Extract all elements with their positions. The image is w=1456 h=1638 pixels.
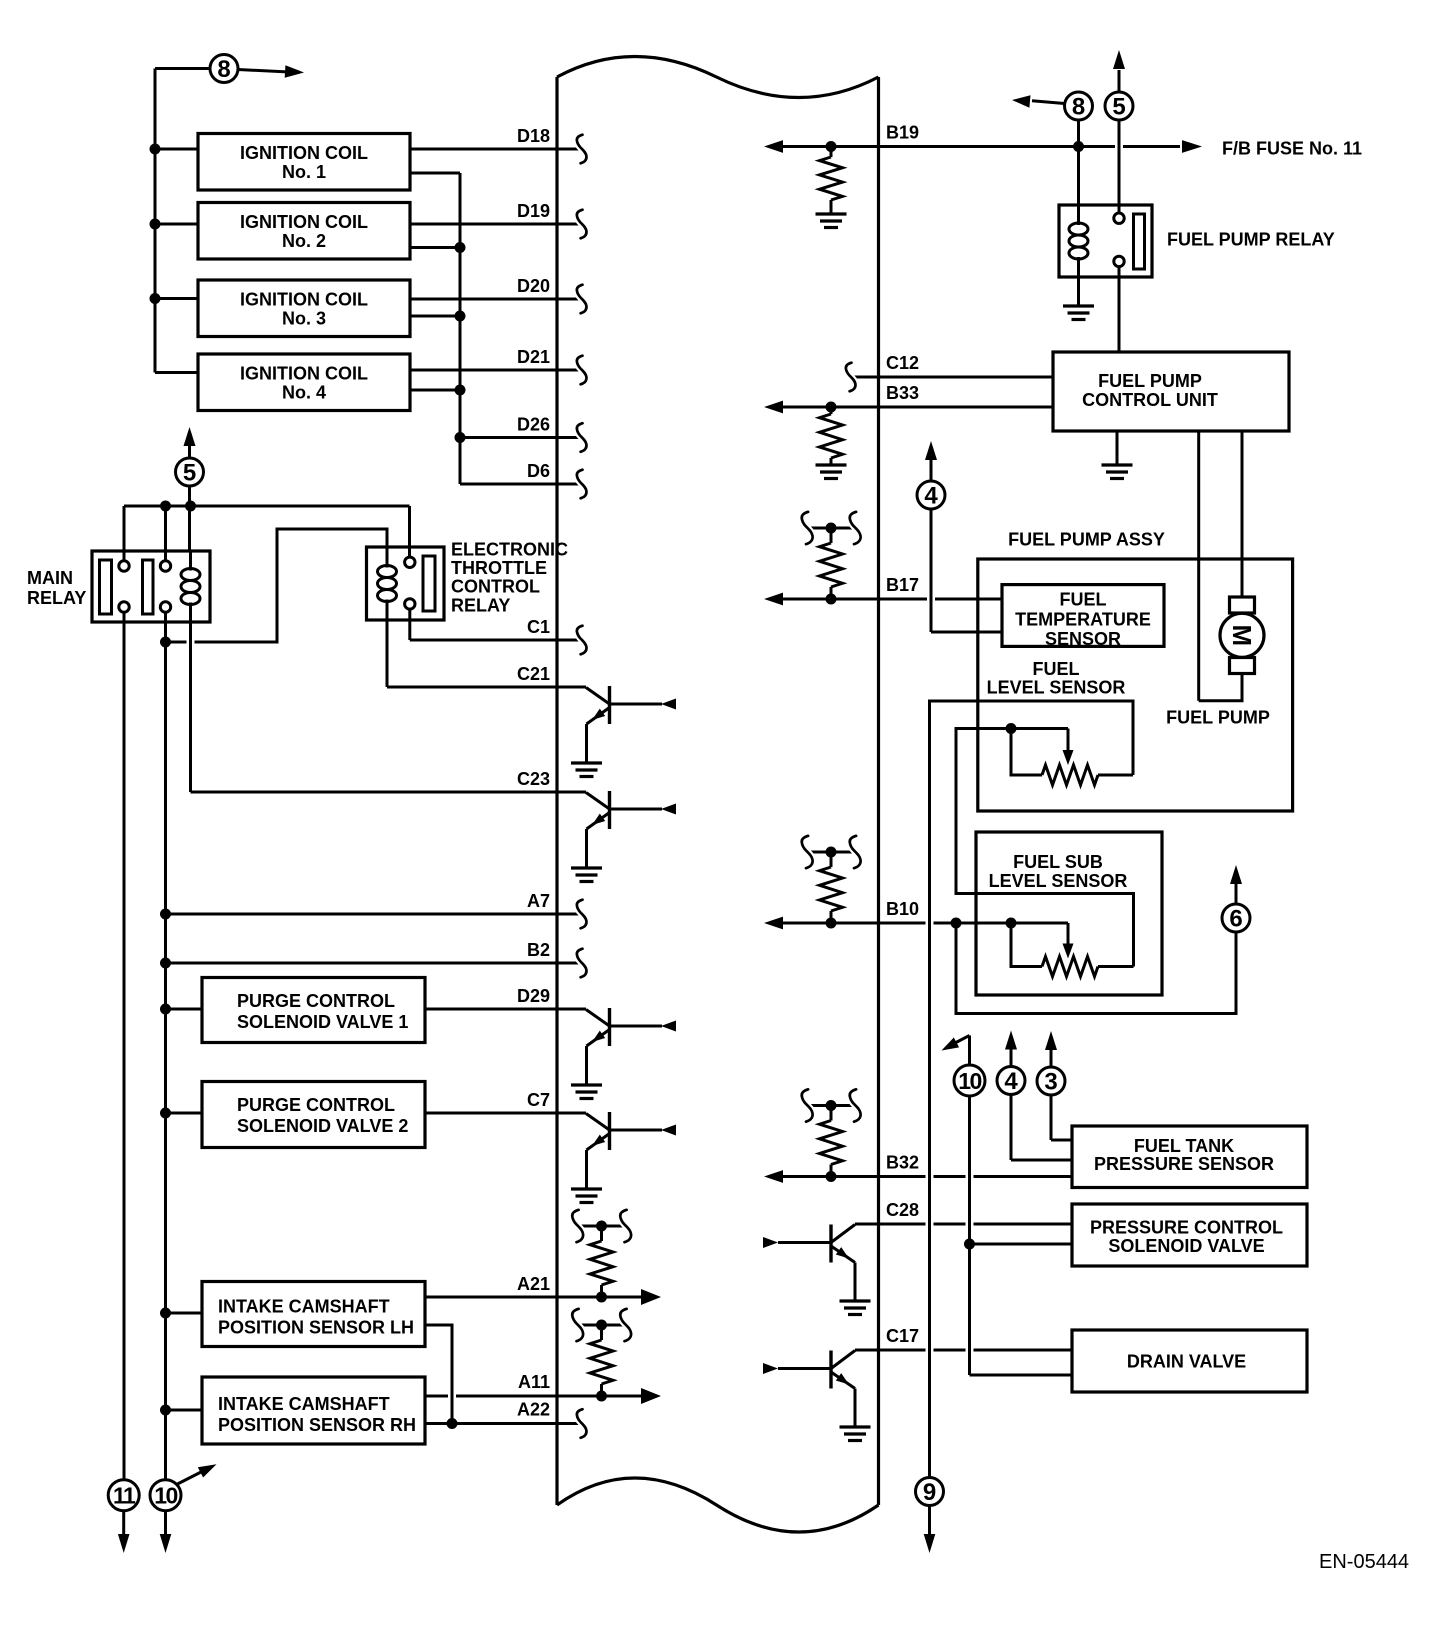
svg-text:FUEL PUMP ASSY: FUEL PUMP ASSY bbox=[1008, 530, 1165, 550]
svg-text:RELAY: RELAY bbox=[27, 588, 86, 608]
svg-text:IGNITION COIL: IGNITION COIL bbox=[240, 212, 368, 232]
svg-text:FUEL TANK: FUEL TANK bbox=[1134, 1136, 1234, 1156]
svg-text:A11: A11 bbox=[518, 1372, 550, 1392]
svg-text:LEVEL SENSOR: LEVEL SENSOR bbox=[989, 871, 1128, 891]
svg-text:B2: B2 bbox=[527, 940, 550, 960]
svg-text:POSITION SENSOR RH: POSITION SENSOR RH bbox=[218, 1415, 416, 1435]
svg-text:SENSOR: SENSOR bbox=[1045, 629, 1121, 649]
svg-text:MAIN: MAIN bbox=[27, 568, 73, 588]
svg-text:FUEL SUB: FUEL SUB bbox=[1013, 852, 1103, 872]
svg-text:8: 8 bbox=[1072, 94, 1085, 121]
svg-text:FUEL: FUEL bbox=[1060, 590, 1107, 610]
svg-text:FUEL PUMP: FUEL PUMP bbox=[1166, 708, 1270, 728]
svg-text:C23: C23 bbox=[517, 769, 550, 789]
svg-text:10: 10 bbox=[958, 1068, 981, 1094]
svg-text:TEMPERATURE: TEMPERATURE bbox=[1015, 610, 1151, 630]
svg-text:10: 10 bbox=[154, 1482, 177, 1508]
svg-text:D21: D21 bbox=[517, 347, 550, 367]
svg-text:PRESSURE CONTROL: PRESSURE CONTROL bbox=[1090, 1218, 1283, 1238]
svg-text:4: 4 bbox=[924, 483, 938, 510]
svg-text:A21: A21 bbox=[517, 1274, 550, 1294]
svg-text:SOLENOID VALVE 2: SOLENOID VALVE 2 bbox=[237, 1116, 408, 1136]
svg-text:No. 2: No. 2 bbox=[282, 231, 326, 251]
svg-text:CONTROL UNIT: CONTROL UNIT bbox=[1082, 390, 1218, 410]
svg-text:6: 6 bbox=[1229, 906, 1242, 933]
svg-text:M: M bbox=[1227, 624, 1257, 646]
svg-text:11: 11 bbox=[113, 1482, 136, 1508]
svg-text:C12: C12 bbox=[886, 353, 919, 373]
svg-text:D26: D26 bbox=[517, 415, 550, 435]
svg-text:PURGE CONTROL: PURGE CONTROL bbox=[237, 991, 395, 1011]
svg-text:9: 9 bbox=[923, 1479, 936, 1506]
svg-text:C28: C28 bbox=[886, 1200, 919, 1220]
svg-text:D6: D6 bbox=[527, 461, 550, 481]
svg-text:No. 3: No. 3 bbox=[282, 308, 326, 328]
svg-text:THROTTLE: THROTTLE bbox=[451, 558, 547, 578]
svg-text:D20: D20 bbox=[517, 276, 550, 296]
svg-text:C7: C7 bbox=[527, 1090, 550, 1110]
svg-text:FUEL PUMP: FUEL PUMP bbox=[1098, 371, 1202, 391]
svg-text:3: 3 bbox=[1044, 1069, 1057, 1096]
svg-text:A22: A22 bbox=[517, 1400, 550, 1420]
svg-text:SOLENOID VALVE: SOLENOID VALVE bbox=[1108, 1236, 1264, 1256]
svg-text:INTAKE CAMSHAFT: INTAKE CAMSHAFT bbox=[218, 1394, 390, 1414]
svg-text:No. 1: No. 1 bbox=[282, 162, 326, 182]
svg-text:SOLENOID VALVE 1: SOLENOID VALVE 1 bbox=[237, 1012, 408, 1032]
svg-text:INTAKE CAMSHAFT: INTAKE CAMSHAFT bbox=[218, 1297, 390, 1317]
svg-text:IGNITION COIL: IGNITION COIL bbox=[240, 289, 368, 309]
svg-text:FUEL PUMP RELAY: FUEL PUMP RELAY bbox=[1167, 230, 1335, 250]
svg-text:D19: D19 bbox=[517, 201, 550, 221]
svg-text:5: 5 bbox=[1112, 94, 1125, 121]
svg-text:B10: B10 bbox=[886, 899, 919, 919]
svg-text:5: 5 bbox=[183, 460, 196, 487]
svg-text:No. 4: No. 4 bbox=[282, 382, 326, 402]
svg-text:RELAY: RELAY bbox=[451, 595, 510, 615]
svg-text:ELECTRONIC: ELECTRONIC bbox=[451, 540, 568, 560]
svg-text:B19: B19 bbox=[886, 123, 919, 143]
svg-text:D29: D29 bbox=[517, 986, 550, 1006]
svg-text:4: 4 bbox=[1004, 1068, 1018, 1095]
svg-text:A7: A7 bbox=[527, 891, 550, 911]
svg-text:C17: C17 bbox=[886, 1326, 919, 1346]
svg-text:PRESSURE SENSOR: PRESSURE SENSOR bbox=[1094, 1154, 1274, 1174]
svg-text:B33: B33 bbox=[886, 383, 919, 403]
svg-text:DRAIN VALVE: DRAIN VALVE bbox=[1127, 1352, 1246, 1372]
svg-text:EN-05444: EN-05444 bbox=[1319, 1551, 1409, 1573]
svg-text:PURGE CONTROL: PURGE CONTROL bbox=[237, 1095, 395, 1115]
svg-text:IGNITION COIL: IGNITION COIL bbox=[240, 143, 368, 163]
svg-text:8: 8 bbox=[217, 56, 230, 83]
svg-text:F/B FUSE No. 11: F/B FUSE No. 11 bbox=[1222, 139, 1362, 159]
svg-text:IGNITION COIL: IGNITION COIL bbox=[240, 363, 368, 383]
svg-text:FUEL: FUEL bbox=[1033, 659, 1080, 679]
svg-text:LEVEL SENSOR: LEVEL SENSOR bbox=[987, 678, 1126, 698]
svg-text:B32: B32 bbox=[886, 1153, 919, 1173]
svg-text:POSITION SENSOR LH: POSITION SENSOR LH bbox=[218, 1318, 414, 1338]
svg-text:C1: C1 bbox=[527, 617, 550, 637]
svg-text:B17: B17 bbox=[886, 575, 919, 595]
svg-text:CONTROL: CONTROL bbox=[451, 577, 540, 597]
svg-text:C21: C21 bbox=[517, 664, 550, 684]
svg-text:D18: D18 bbox=[517, 126, 550, 146]
